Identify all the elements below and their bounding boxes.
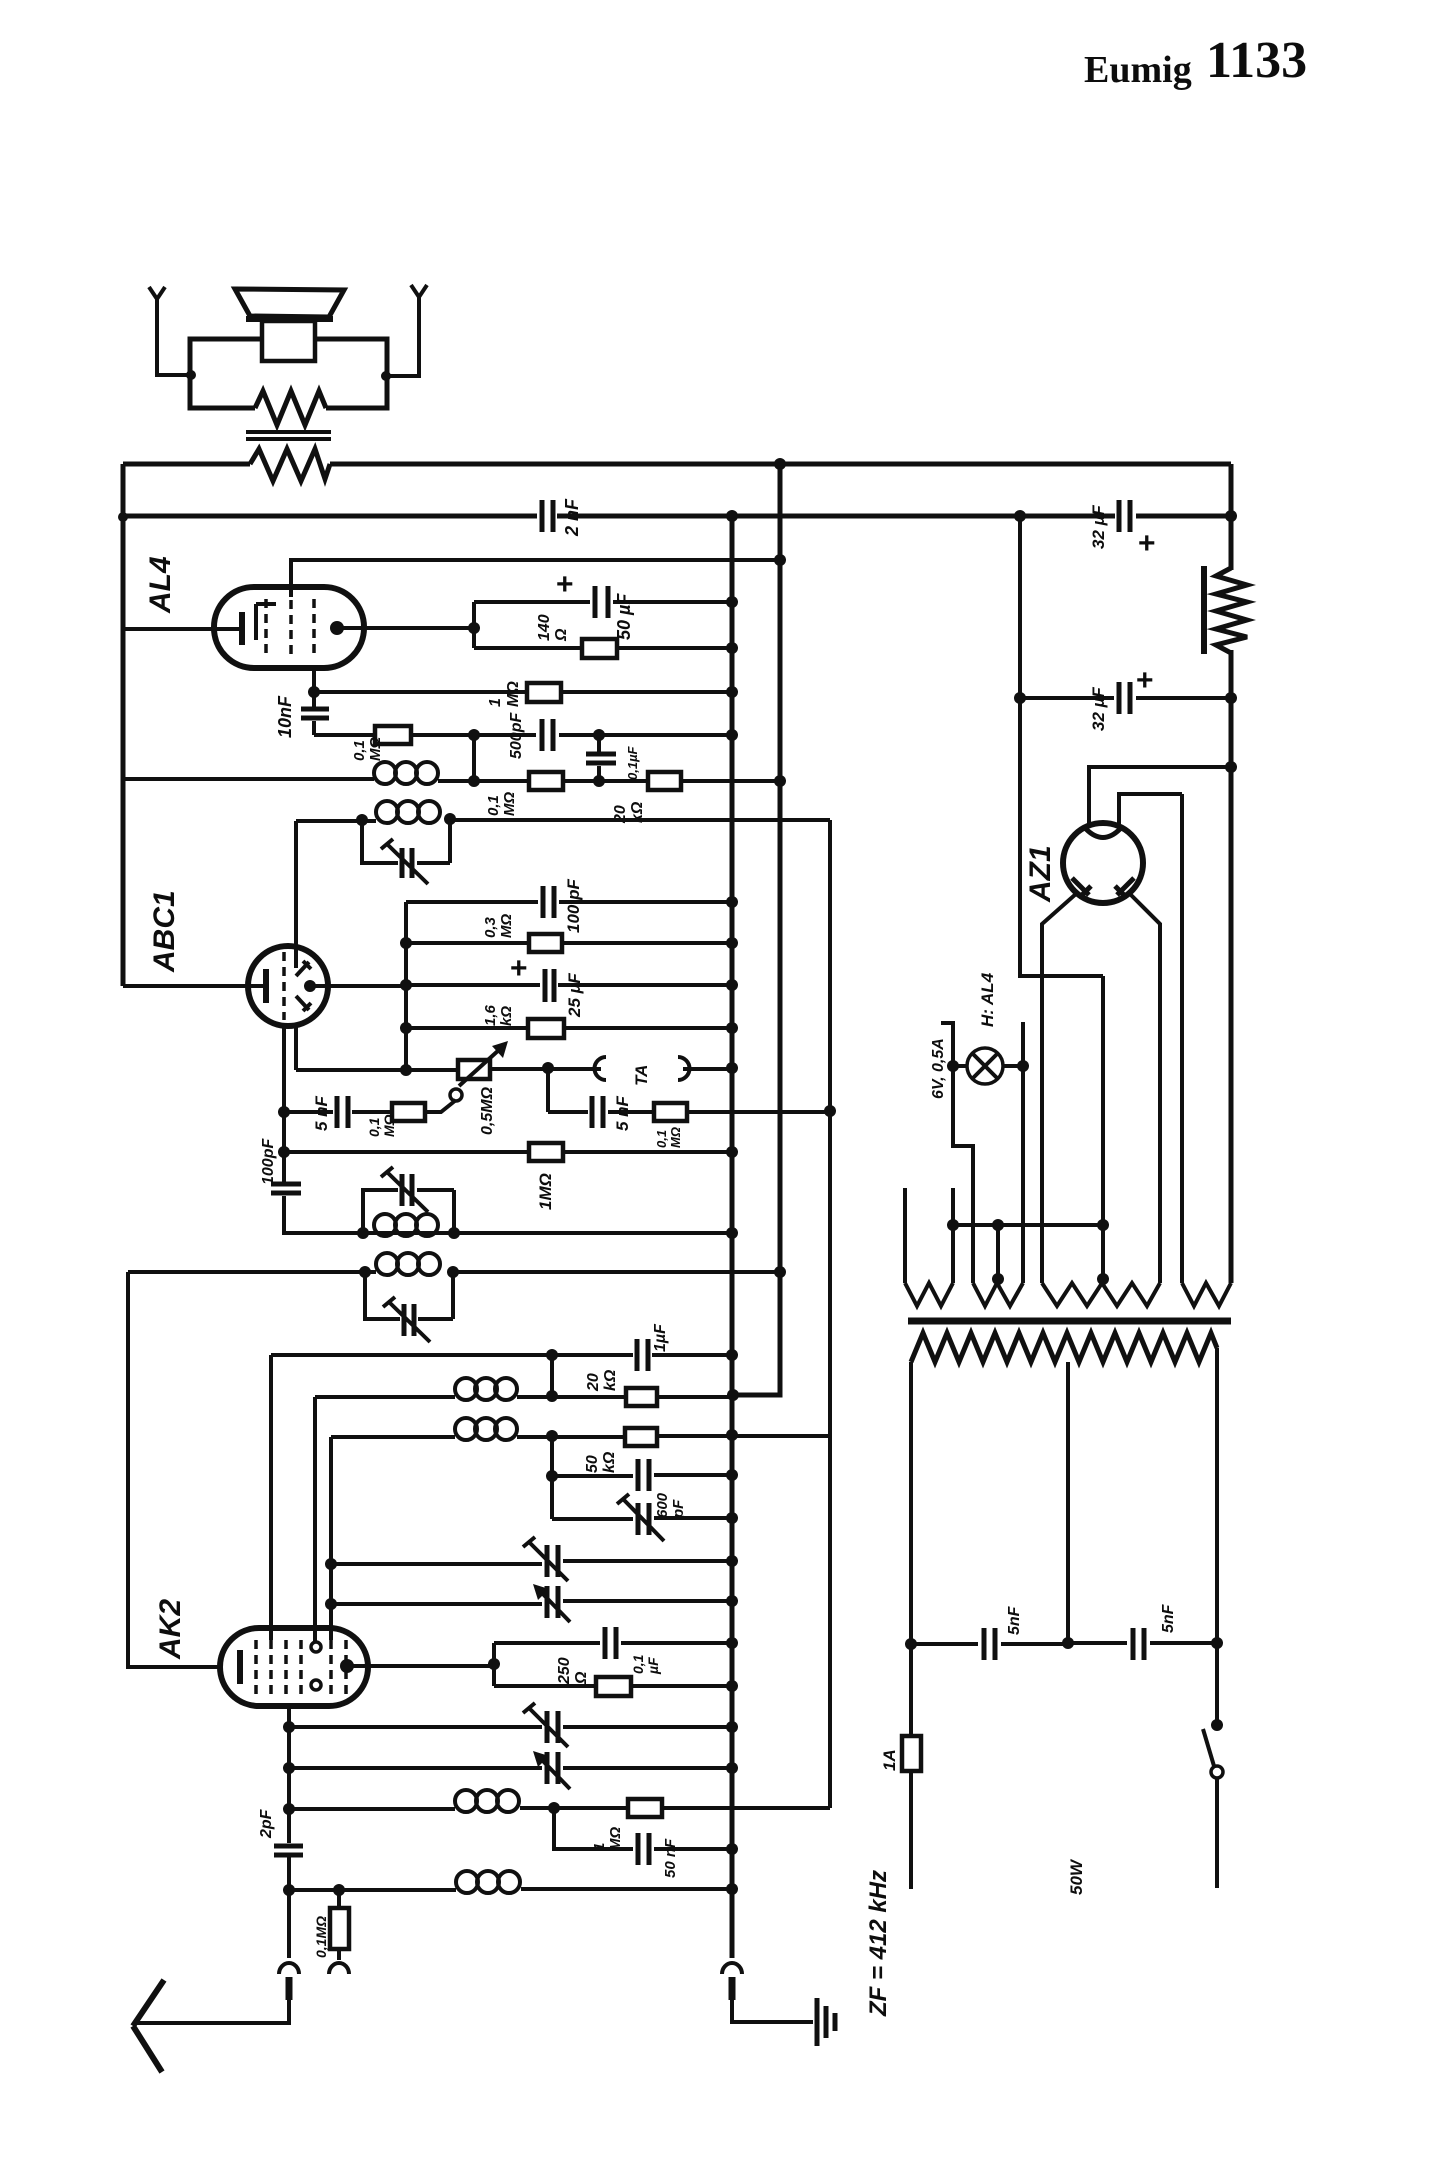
node right bus 767 [1225, 761, 1237, 773]
svg-text:TA: TA [632, 1065, 651, 1086]
wire to ground [732, 2000, 813, 2022]
wire 5nF row 1112 right [548, 1068, 830, 1112]
node row735 x598 [593, 729, 605, 741]
node row943 x406 [400, 937, 412, 949]
svg-text:+: + [556, 568, 574, 601]
wire osc coil row 1233 [363, 1231, 732, 1235]
wire ant coil1 row 1809 [289, 1808, 830, 1809]
node anode bracket [468, 622, 480, 634]
node rail2 x1020 [1014, 510, 1026, 522]
wire antenna lead [287, 1890, 291, 1958]
node ABC1 anode [304, 980, 316, 992]
node row1225 x953 [947, 1219, 959, 1231]
speaker LS cone [235, 289, 344, 319]
node AK2 anode bracket [488, 1658, 500, 1670]
node lamp right [1017, 1060, 1029, 1072]
wire heater link row 1225 [953, 1223, 1103, 1227]
svg-text:50 nF: 50 nF [662, 1838, 679, 1878]
wire primary left drop [909, 1362, 913, 1889]
jack ground terminal [722, 1963, 742, 1974]
wire grid drop to ABC1 [294, 821, 298, 1070]
wire primary tap drop [1066, 1362, 1070, 1643]
node row1643 bus [726, 1637, 738, 1649]
resistor 1 MOhm row1808 [628, 1799, 662, 1817]
capacitor 50uF [595, 586, 608, 618]
node LS right [381, 371, 391, 381]
resistor 0.1 MOhm row735 [375, 726, 411, 744]
wire ABC1 aux bus x406 [404, 902, 408, 1070]
wire lamp right lead [1021, 1022, 1025, 1283]
capacitor 1uF [637, 1339, 648, 1371]
gang2 arrow [541, 1592, 570, 1622]
wire left bus [121, 464, 126, 986]
svg-text:AK2: AK2 [154, 1599, 187, 1660]
capacitor tuning gang 2 [547, 1586, 558, 1618]
wire bus B jog to bus A [733, 1272, 780, 1395]
wire right edge bus [1229, 464, 1234, 1283]
field coil winding [1216, 568, 1247, 653]
svg-text:0,5MΩ: 0,5MΩ [479, 1086, 496, 1135]
wire IFT1 trimmer box [362, 819, 450, 863]
node row1272 left [359, 1266, 371, 1278]
node row985 x406 [400, 979, 412, 991]
antenna plug pin [286, 1977, 293, 2000]
node row1644 left [905, 1638, 917, 1650]
coil antenna secondary [456, 1871, 520, 1893]
wire grid3 row 1437 [331, 1436, 830, 1437]
node winding3 tap [1097, 1273, 1109, 1285]
node row1686 bus [726, 1680, 738, 1692]
tube AK2 envelope [220, 1628, 368, 1706]
trimmer osc grid [402, 1174, 412, 1206]
wire x552 link 1355-1397 [550, 1355, 554, 1396]
wire AK2 anode row [347, 1664, 494, 1668]
capacitor tuning gang 3 [547, 1711, 558, 1743]
node rail/bus B [774, 458, 786, 470]
switch mains [1211, 1719, 1223, 1731]
wire bracket 735-781 [472, 735, 476, 781]
wire gang3 row 1727 [289, 1725, 732, 1729]
transformer primary winding [911, 1333, 1217, 1362]
tube ABC1 grid dash [282, 952, 286, 1020]
node right bus 698 [1225, 692, 1237, 704]
resistor 0.1 MOhm row1112 right [654, 1103, 687, 1121]
node row781 x598 [593, 775, 605, 787]
wire AZ1 cathode left [1042, 893, 1077, 1283]
wire trimmer row 1519 [552, 1518, 732, 1519]
wire bus C x830 [828, 820, 832, 1808]
node coil2 right [444, 813, 456, 825]
node 1Mohm bus [726, 686, 738, 698]
node row1437 bus [726, 1429, 738, 1441]
node row902 bus [726, 896, 738, 908]
coil osc anode [376, 1253, 440, 1275]
tube ABC1 diode plates [296, 961, 311, 1011]
capacitor 600pF [638, 1459, 649, 1491]
node row1809 left [283, 1803, 295, 1815]
trimmer osc anode [404, 1304, 414, 1336]
svg-text:100 pF: 100 pF [564, 879, 583, 933]
capacitor 0.1uF [586, 754, 616, 763]
svg-text:+: + [510, 952, 528, 985]
svg-text:Eumig: Eumig [1084, 49, 1192, 91]
wire AL4 cathode lead [123, 627, 240, 631]
tube ABC1 envelope [248, 946, 328, 1026]
wire 0.1M row735 [314, 733, 732, 737]
speaker secondary winding [255, 391, 326, 425]
node row1727 left [283, 1721, 295, 1733]
node row1603 bus [726, 1595, 738, 1607]
svg-text:1A: 1A [880, 1749, 899, 1771]
wire AK2 grid2 drop [313, 1397, 317, 1642]
transformer core bar [908, 1318, 1231, 1325]
resistor 1.6 kOhm [528, 1019, 564, 1038]
node row1727 bus [726, 1721, 738, 1733]
node row1355 bus [726, 1349, 738, 1361]
wire 0.1uF row 1643 [494, 1641, 732, 1645]
resistor 140 Ohm [582, 639, 617, 658]
wire ABC1 cathode lead [123, 984, 263, 988]
node rail2 bus A [726, 510, 738, 522]
node row781 bus B [774, 775, 786, 787]
wire grid row 781 [123, 779, 780, 781]
svg-text:10nF: 10nF [275, 695, 295, 738]
potentiometer 0.5 MOhm [458, 1060, 490, 1079]
node row1225 x998 [992, 1219, 1004, 1231]
node row1890 left [283, 1884, 295, 1896]
wire B+ top rail [123, 462, 1231, 467]
transformer winding W1 [905, 1283, 953, 1306]
svg-text:0,1MΩ: 0,1MΩ [366, 1114, 397, 1137]
node row1152 bus [726, 1146, 738, 1158]
resistor 0.1 MOhm row781 [529, 772, 563, 790]
speaker voice coil [262, 321, 315, 361]
resistor 50 kOhm row1437 [625, 1428, 657, 1446]
capacitor 2nF [542, 500, 553, 532]
wire AK2 bottom drop [287, 1706, 291, 1890]
tube AK2 osc pins [311, 1642, 321, 1652]
node row1437 x552 [546, 1430, 558, 1442]
svg-text:+: + [1136, 664, 1154, 697]
node row1768 bus [726, 1762, 738, 1774]
wire x1020 drop [1020, 516, 1103, 976]
capacitor 100pF vertical [271, 1184, 301, 1193]
tube AZ1 envelope [1063, 823, 1143, 903]
wire lamp left lead [941, 1023, 973, 1283]
node 140ohm bus [726, 642, 738, 654]
tube AL4 grids [266, 599, 314, 657]
svg-text:0,1MΩ: 0,1MΩ [351, 737, 384, 761]
tube ABC1 cathode [263, 969, 269, 1003]
node row943 bus [726, 937, 738, 949]
field coil core bar [1201, 566, 1207, 654]
wire osc coil box top [363, 1190, 454, 1233]
resistor 1 MOhm row1152 [529, 1143, 563, 1161]
wire AZ1 cathode right [1129, 893, 1160, 1283]
svg-text:0,1MΩ: 0,1MΩ [485, 792, 518, 816]
wire AZ1 filament lead [1119, 794, 1182, 1283]
svg-text:100pF: 100pF [260, 1138, 277, 1185]
wire AL4 bottom lead [312, 668, 316, 735]
wire 100pF row 902 [406, 900, 732, 904]
node row735 bus [726, 729, 738, 741]
wire osc anode row 1272 [128, 1270, 780, 1274]
resistor 0.1 MOhm antenna [337, 1890, 341, 1960]
svg-text:ABC1: ABC1 [148, 890, 181, 973]
fuse 1A [902, 1736, 921, 1771]
wire grid2 row 1397 [315, 1395, 733, 1399]
node row1112 left [278, 1106, 290, 1118]
trimmer IFT1 arrow [381, 839, 428, 884]
wire lamp circle leads [953, 1064, 1023, 1068]
svg-text:1133: 1133 [1206, 32, 1307, 89]
node row1561 bus [726, 1555, 738, 1567]
svg-text:25 µF: 25 µF [565, 973, 584, 1018]
wire x552 link 1437-1519 [550, 1436, 554, 1519]
wire AK2 grid3 drop [329, 1437, 333, 1640]
node row985 bus [726, 979, 738, 991]
output transformer primary on B+ rail [250, 449, 330, 481]
wire 1Mohm row [314, 690, 732, 694]
gang3 arrow [523, 1703, 568, 1747]
wire 32uF lower row 698 [1020, 696, 1231, 700]
coil antenna primary [455, 1790, 519, 1812]
wire AK2 grid1 drop [269, 1355, 273, 1640]
coil osc grid [374, 1214, 438, 1236]
capacitor 100pF row902 [543, 886, 554, 918]
wire 600pF row 1475 [552, 1475, 732, 1476]
node AL4 anode [330, 621, 344, 635]
capacitor 5nF right [592, 1096, 603, 1128]
wire 1uF row 1355 [271, 1353, 732, 1357]
svg-text:5nF: 5nF [1006, 1605, 1023, 1635]
trimmer padding [638, 1503, 649, 1535]
wire x1103 drop [1101, 976, 1105, 1283]
capacitor 25uF [545, 969, 554, 1002]
tube AK2 cathode [237, 1650, 243, 1684]
coil row1437 [455, 1418, 517, 1440]
coil IFT1 primary [374, 762, 438, 784]
node row1069 bus [726, 1062, 738, 1074]
resistor 20 kOhm row781 [648, 772, 681, 790]
wire gang4 row 1768 [289, 1766, 732, 1770]
speaker terminal left [149, 287, 190, 375]
node coil2 left [356, 814, 368, 826]
wire primary right drop [1215, 1348, 1219, 1725]
wire 0.1uF branch [597, 735, 601, 781]
wire ABC1 anode row 985 [310, 985, 732, 986]
tube AL4 cathode [239, 612, 245, 645]
tube AK2 grids [256, 1640, 346, 1697]
wire gang2 row 1603 [331, 1601, 732, 1604]
node row1028 x406 [400, 1022, 412, 1034]
svg-text:AZ1: AZ1 [1024, 845, 1057, 903]
node rail2 left [118, 512, 128, 522]
wire 1.6k row 1028 [406, 1026, 732, 1030]
svg-text:0,3MΩ: 0,3MΩ [482, 914, 515, 938]
node 1Mohm left [308, 686, 320, 698]
svg-text:5 nF: 5 nF [613, 1095, 632, 1131]
node row1225 x1103 [1097, 1219, 1109, 1231]
node row1561 x331 [325, 1558, 337, 1570]
tube AZ1 filament dip [1086, 829, 1120, 838]
wire gang1 row 1561 [331, 1561, 732, 1564]
wire bus B [778, 464, 783, 1272]
resistor 250 Ohm [596, 1677, 631, 1696]
ground plug pin [729, 1977, 736, 2000]
capacitor 32uF upper [1119, 500, 1130, 532]
node grid rail bus B [774, 554, 786, 566]
wire anode bracket [472, 602, 476, 648]
svg-text:ZF = 412 kHz: ZF = 412 kHz [865, 1870, 892, 2017]
transformer winding W4 [1182, 1283, 1231, 1306]
wire osc anode box bottom [365, 1272, 453, 1319]
node row1603 x331 [325, 1598, 337, 1610]
trimmer padding arrow [617, 1494, 664, 1541]
tube AL4 envelope [214, 587, 364, 668]
svg-text:0,1µF: 0,1µF [630, 1654, 661, 1675]
node row1272 right [447, 1266, 459, 1278]
svg-text:6V, 0,5A: 6V, 0,5A [930, 1038, 947, 1099]
node lamp left [947, 1060, 959, 1072]
node row1028 bus [726, 1022, 738, 1034]
lamp pilot 6V [967, 1048, 1003, 1084]
node row698 x1020 [1014, 692, 1026, 704]
svg-text:1MΩ: 1MΩ [536, 1173, 555, 1210]
node row1644 right [1211, 1637, 1223, 1649]
transformer winding W2 [973, 1283, 1023, 1306]
resistor 0.1 MOhm row1112 left [392, 1103, 425, 1121]
wire winding2 tap [996, 1225, 1000, 1278]
speaker terminal right [387, 285, 427, 376]
jack TA right [678, 1057, 690, 1080]
wire anode bracket AK2 [492, 1643, 496, 1686]
wire AL4 anode row [337, 626, 474, 630]
node row781 bracket [468, 775, 480, 787]
svg-text:2 nF: 2 nF [562, 498, 582, 537]
node row1475 bus [726, 1469, 738, 1481]
capacitor 50nF [638, 1833, 649, 1865]
pot arrow [459, 1049, 500, 1086]
svg-text:0,1MΩ: 0,1MΩ [313, 1916, 329, 1958]
node row1397 x552 [546, 1390, 558, 1402]
resistor 0.3 MOhm [529, 934, 562, 952]
node row1152 left [278, 1146, 290, 1158]
wire ant coil2 row 1890 [289, 1889, 732, 1890]
capacitor 5nF mains left [984, 1628, 995, 1660]
wire 250ohm row 1686 [494, 1684, 732, 1688]
capacitor 10nF [301, 709, 329, 718]
wire IFT1 secondary row 820 [296, 820, 830, 821]
gang1 arrow [523, 1537, 568, 1581]
node winding2 tap [992, 1273, 1004, 1285]
wire volume row 1069 [296, 1069, 732, 1070]
svg-text:5 nF: 5 nF [312, 1095, 331, 1131]
node row1233 bus [726, 1227, 738, 1239]
svg-text:50 µF: 50 µF [614, 593, 634, 640]
capacitor 2pF [274, 1846, 303, 1855]
wire 0.3M row 943 [406, 941, 732, 945]
trimmer osc arrow [381, 1167, 428, 1212]
node right bus 516 [1225, 510, 1237, 522]
resistor 20 kOhm row1397 [626, 1388, 657, 1406]
wire second rail [123, 514, 1231, 519]
resistor 1 MOhm [527, 683, 561, 702]
svg-text:H: AL4: H: AL4 [978, 972, 997, 1027]
trimmer osc anode arrow [383, 1297, 430, 1342]
output transformer core [246, 432, 331, 439]
node 50uF bus [726, 596, 738, 608]
svg-text:1,6kΩ: 1,6kΩ [482, 1004, 515, 1026]
transformer winding W1 stubs [905, 1188, 953, 1283]
pot wiper tap [450, 1089, 462, 1101]
svg-text:1µF: 1µF [652, 1323, 669, 1352]
svg-text:AL4: AL4 [144, 556, 177, 614]
node row735 bracket [468, 729, 480, 741]
tube AL4 internal bracket [256, 604, 276, 640]
svg-text:50W: 50W [1067, 1858, 1086, 1895]
svg-text:5nF: 5nF [1160, 1603, 1177, 1633]
transformer winding W3 [1042, 1283, 1160, 1306]
wire ABC1 bottom drop [284, 1025, 363, 1233]
wire 50nF branch [554, 1808, 732, 1849]
wire 50uF row [474, 600, 732, 604]
node row1397 bus [727, 1389, 739, 1401]
node row1849 bus [726, 1843, 738, 1855]
svg-text:32 µF: 32 µF [1089, 505, 1108, 549]
wire 5nF mains row 1644 [911, 1643, 1217, 1644]
svg-text:2pF: 2pF [258, 1808, 275, 1839]
node row1233 left [357, 1227, 369, 1239]
node row1272 bus B [774, 1266, 786, 1278]
wire 5nF row 1112 left [284, 1100, 456, 1112]
node row1890 bus [726, 1883, 738, 1895]
wire 140ohm row [474, 646, 732, 650]
capacitor tuning gang 4 [547, 1752, 558, 1784]
wire 1M row 1152 [284, 1150, 732, 1154]
wire bus A central [730, 516, 735, 1958]
node AK2 anode [340, 1659, 354, 1673]
capacitor 5nF mains right [1133, 1628, 1144, 1660]
node row1519 bus [726, 1512, 738, 1524]
node row1355 x552 [546, 1349, 558, 1361]
trimmer IFT1 [402, 848, 412, 878]
svg-text:0,1MΩ: 0,1MΩ [654, 1127, 683, 1148]
capacitor 500pF [542, 719, 553, 751]
tube AZ1 anodes [1072, 878, 1134, 897]
coil row1397 [455, 1378, 517, 1400]
coil IFT1 secondary [376, 801, 440, 823]
node row1233 right [448, 1227, 460, 1239]
node row1644 mid [1062, 1637, 1074, 1649]
jack TA left [595, 1057, 607, 1080]
speaker frame box [190, 339, 387, 408]
node row1475 x552 [546, 1470, 558, 1482]
svg-text:+: + [1138, 527, 1156, 560]
svg-text:0,1µF: 0,1µF [625, 745, 640, 780]
node row1069 x548 [542, 1062, 554, 1074]
antenna arrow [133, 1980, 164, 2072]
jack antenna [279, 1963, 299, 1974]
capacitor 0.1uF AK2 [605, 1627, 616, 1659]
jack antenna aux [329, 1963, 349, 1974]
ground symbol [817, 1998, 835, 2046]
svg-text:32 µF: 32 µF [1089, 687, 1108, 731]
node row1809 x554 [548, 1802, 560, 1814]
wire left drop to AK2 cathode [128, 1272, 222, 1667]
node row1890 x339 [333, 1884, 345, 1896]
wire AL4 grid top lead [291, 560, 780, 597]
